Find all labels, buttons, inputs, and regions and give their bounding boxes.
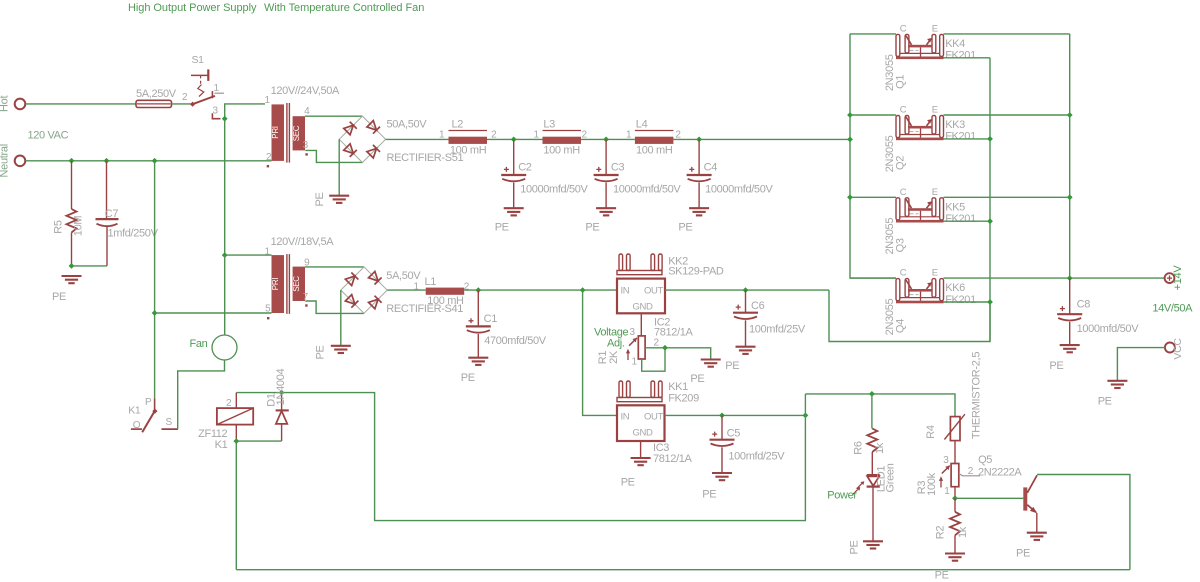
svg-text:2: 2 — [266, 152, 272, 163]
label PE C3 — [585, 222, 599, 234]
label PE R1 a — [725, 360, 739, 372]
svg-text:SEC: SEC — [292, 125, 301, 141]
rectifier B1 RECTIFIER-S51 — [339, 116, 463, 164]
wire Q2 collector — [850, 114, 896, 116]
ground PE C8 — [1060, 345, 1080, 352]
svg-text:R5: R5 — [53, 220, 65, 234]
wire IC2 OUT to base chain — [829, 290, 990, 341]
capacitor C3 10000mfd/50V — [594, 139, 682, 208]
wire R1 wiper to ground — [645, 348, 711, 360]
junction K1 branch — [152, 158, 158, 164]
svg-text:100 mH: 100 mH — [427, 295, 464, 307]
svg-text:1: 1 — [944, 486, 950, 497]
svg-text:L3: L3 — [543, 119, 555, 131]
svg-text:FK201: FK201 — [945, 213, 976, 225]
junction base Q2 — [987, 136, 993, 142]
svg-text:C8: C8 — [1077, 299, 1091, 311]
transistor Q2 2N3055 heatsink KK3 FK201 — [884, 105, 976, 173]
svg-text:OUT: OUT — [644, 412, 664, 423]
svg-text:C: C — [900, 187, 907, 198]
label PE C8 — [1049, 360, 1063, 372]
transformer T2 120V//18V,5A — [267, 236, 334, 319]
wire bridge B2 minus to ground — [340, 290, 342, 346]
wire L3 to L4 — [581, 138, 635, 140]
junction C1 — [475, 287, 481, 293]
wire base chain — [989, 58, 991, 342]
wire tap to fan — [224, 255, 226, 335]
ground PE C3 — [596, 208, 616, 215]
svg-text:KK3: KK3 — [945, 119, 965, 131]
T1 pin 1 label — [265, 95, 271, 106]
svg-text:PRI: PRI — [271, 278, 280, 291]
svg-text:1k: 1k — [957, 526, 969, 538]
wire T1 sec4 to bridge — [305, 115, 362, 117]
svg-text:E: E — [932, 23, 938, 34]
svg-text:K1: K1 — [215, 439, 228, 451]
svg-text:1000mfd/50V: 1000mfd/50V — [1077, 323, 1140, 335]
ground PE IC3 — [631, 458, 651, 465]
svg-text:1: 1 — [414, 282, 420, 293]
transformer T1 120V//24V,50A — [267, 85, 340, 167]
svg-text:E: E — [932, 187, 938, 198]
regulator IC2 7812/1A — [617, 279, 694, 339]
wire Q3 emitter — [944, 196, 1070, 198]
svg-text:FK209: FK209 — [668, 393, 699, 405]
svg-text:C5: C5 — [727, 428, 741, 440]
svg-text:PE: PE — [1016, 548, 1030, 560]
inductor L3 100 mH — [534, 119, 588, 157]
wire to IC3 IN — [583, 290, 617, 415]
wire Q4 base — [944, 301, 991, 303]
svg-text:PE: PE — [725, 360, 739, 372]
wire IC3 GND — [640, 441, 642, 458]
svg-text:2: 2 — [968, 466, 974, 477]
wire collector rail — [850, 34, 896, 278]
wire switched hot down — [224, 119, 226, 255]
fan M1 — [190, 335, 238, 360]
label PE LED — [848, 540, 860, 554]
wire bottom rail — [236, 569, 1130, 571]
svg-text:4700mfd/50V: 4700mfd/50V — [484, 335, 547, 347]
svg-text:14V/50A: 14V/50A — [1152, 303, 1193, 315]
wire tap to T2 pin1 — [225, 254, 272, 256]
svg-text:R4: R4 — [925, 425, 937, 439]
svg-text:2: 2 — [182, 92, 188, 103]
svg-text:1: 1 — [439, 130, 445, 141]
svg-text:PE: PE — [1049, 360, 1063, 372]
terminal VCC — [1165, 338, 1184, 360]
svg-text:Q5: Q5 — [978, 454, 992, 466]
resistor R2 1k — [935, 498, 970, 553]
svg-text:C: C — [900, 268, 907, 279]
junction base Q4 — [987, 299, 993, 305]
T2 pin 1 label — [265, 247, 271, 258]
ground PE R5 — [62, 276, 82, 283]
wire L4 to collector rail — [673, 138, 850, 140]
resistor R6 1k — [853, 394, 887, 455]
junction C5 — [719, 413, 725, 419]
svg-text:IN: IN — [621, 412, 630, 423]
junction erail Q2 — [1067, 112, 1073, 118]
svg-text:S1: S1 — [192, 54, 205, 66]
label PE IC3 — [621, 477, 635, 489]
regulator IC3 7812/1A — [617, 405, 693, 465]
label PE R5 — [52, 291, 66, 303]
svg-text:PE: PE — [935, 570, 949, 582]
wire IC3 OUT — [665, 414, 806, 416]
svg-text:3: 3 — [303, 140, 309, 151]
wire Q2 base — [944, 138, 991, 140]
svg-text:100 mH: 100 mH — [450, 145, 487, 157]
svg-text:PE: PE — [461, 372, 475, 384]
svg-text:2N2222A: 2N2222A — [978, 467, 1022, 479]
svg-text:KK5: KK5 — [945, 201, 965, 213]
svg-text:10000mfd/50V: 10000mfd/50V — [520, 184, 588, 196]
S1 pin 1 — [212, 83, 224, 98]
svg-text:OUT: OUT — [644, 286, 664, 297]
svg-text:100 mH: 100 mH — [543, 145, 580, 157]
junction 12V cross — [803, 413, 809, 419]
ground PE C1 — [468, 358, 488, 365]
svg-text:120 VAC: 120 VAC — [28, 130, 69, 142]
svg-text:5A,50V: 5A,50V — [386, 270, 421, 282]
junction IC3 feed — [580, 287, 586, 293]
svg-text:50A,50V: 50A,50V — [387, 119, 428, 131]
svg-text:Q1: Q1 — [894, 75, 906, 89]
junction C7 — [104, 158, 110, 164]
svg-text:5: 5 — [265, 304, 271, 315]
junction erail Q3 — [1067, 194, 1073, 200]
svg-text:1: 1 — [626, 130, 632, 141]
wire Q3 base — [944, 220, 991, 222]
wire R4 to R3 — [954, 441, 956, 464]
junction D1 — [279, 390, 285, 396]
ground PE C2 — [504, 208, 524, 215]
ground PE B2 — [331, 346, 351, 353]
junction K1 coil bottom — [233, 438, 239, 444]
wire LED to ground — [872, 487, 874, 542]
wire bridge B1 plus to L2 — [386, 138, 449, 140]
wire Q4 collector — [850, 277, 896, 279]
svg-text:120V//18V,5A: 120V//18V,5A — [271, 236, 335, 248]
resistor R5 10M — [53, 161, 85, 266]
svg-text:3: 3 — [630, 327, 636, 338]
diode D1 1N4004 — [266, 368, 289, 441]
S1 pin 2 label — [182, 92, 188, 103]
svg-text:10000mfd/50V: 10000mfd/50V — [705, 184, 773, 196]
svg-text:120V//24V,50A: 120V//24V,50A — [271, 85, 340, 97]
svg-text:VCC: VCC — [1172, 338, 1184, 360]
wire bottom rail to Q5 — [1037, 475, 1130, 570]
fuse F1 5A,250V — [136, 88, 177, 108]
svg-text:PE: PE — [52, 291, 66, 303]
svg-text:THERMISTOR-2,5: THERMISTOR-2,5 — [970, 352, 982, 439]
label Q5 2N2222A — [978, 454, 1022, 479]
capacitor C4 10000mfd/50V — [687, 139, 774, 208]
svg-text:2K: 2K — [608, 350, 620, 364]
svg-text:PE: PE — [678, 222, 692, 234]
label PE R1 b — [690, 373, 704, 385]
wire collector rail top — [850, 33, 896, 35]
terminal +14V — [1165, 265, 1184, 291]
wire bridge B1 minus to ground — [338, 139, 340, 195]
svg-text:PE: PE — [315, 345, 327, 359]
svg-text:Q3: Q3 — [894, 238, 906, 252]
capacitor C5 100mfd/25V — [710, 415, 786, 473]
ground PE R1 — [701, 360, 721, 367]
label PE C1 — [461, 372, 475, 384]
svg-text:PE: PE — [1098, 396, 1112, 408]
svg-text:Green: Green — [885, 463, 897, 492]
switch S1 — [190, 54, 215, 107]
wire hot to fuse — [26, 103, 137, 105]
potentiometer R1 2K Voltage Adj. — [594, 327, 660, 368]
svg-text:3: 3 — [213, 106, 219, 117]
svg-text:10000mfd/50V: 10000mfd/50V — [613, 184, 681, 196]
inductor L4 100 mH — [626, 119, 681, 157]
svg-text:KK4: KK4 — [945, 38, 965, 50]
svg-text:Hot: Hot — [0, 96, 11, 112]
ground PE C4 — [689, 208, 709, 215]
svg-text:100mfd/25V: 100mfd/25V — [749, 324, 806, 336]
wire L1 to IC2 IN — [464, 289, 617, 291]
R3 pin 3 label — [943, 455, 949, 466]
transistor Q3 2N3055 heatsink KK5 FK201 — [884, 187, 976, 255]
svg-text:R2: R2 — [935, 526, 947, 540]
label PE B1 — [314, 192, 326, 206]
wire emitter rail — [1069, 34, 1071, 278]
svg-text:Neutral: Neutral — [0, 144, 11, 177]
capacitor C7 .1mfd/250V — [96, 161, 159, 266]
svg-text:Adj.: Adj. — [607, 338, 625, 350]
wire neutral rail — [26, 160, 272, 162]
svg-text:FK201: FK201 — [945, 131, 976, 143]
ground PE C6 — [736, 347, 756, 354]
svg-text:KK6: KK6 — [945, 282, 965, 294]
svg-text:1: 1 — [632, 357, 638, 368]
junction rail Q3 — [847, 194, 853, 200]
label PE B2 — [315, 345, 327, 359]
svg-text:PE: PE — [314, 192, 326, 206]
wire base to Q5 — [955, 497, 1023, 499]
svg-text:PE: PE — [702, 489, 716, 501]
wire K1 coil to bottom rail — [235, 441, 237, 570]
label PE Q5 — [1016, 548, 1030, 560]
T2 pin 9 label — [304, 258, 310, 269]
wire 12V to R6 R4 — [805, 394, 955, 417]
junction rail L4 — [847, 137, 853, 143]
label PE VCC — [1098, 396, 1112, 408]
svg-text:FK201: FK201 — [945, 50, 976, 62]
terminal Neutral — [0, 144, 25, 177]
junction R5-C7 bottom — [69, 263, 75, 269]
junction base Q3 — [987, 218, 993, 224]
svg-text:FK201: FK201 — [945, 294, 976, 306]
wire S1 to T1 pin1 — [225, 104, 265, 119]
svg-text:2: 2 — [464, 282, 470, 293]
svg-text:1: 1 — [214, 83, 220, 94]
svg-text:SK129-PAD: SK129-PAD — [668, 265, 724, 277]
svg-text:PE: PE — [690, 373, 704, 385]
svg-text:High Output Power Supply: High Output Power Supply — [128, 2, 257, 14]
wire fan to K1 S — [178, 360, 225, 429]
svg-text:100 mH: 100 mH — [636, 145, 673, 157]
wire IC2 GND to R1 — [640, 313, 642, 336]
junction rail Q2 — [847, 112, 853, 118]
svg-text:C3: C3 — [611, 162, 625, 174]
wire Q4 emitter — [944, 277, 1070, 279]
capacitor C8 1000mfd/50V — [1057, 278, 1139, 345]
svg-text:PE: PE — [848, 540, 860, 554]
junction C8 — [1067, 275, 1073, 281]
svg-text:4: 4 — [304, 106, 310, 117]
svg-text:L2: L2 — [452, 119, 464, 131]
svg-text:E: E — [932, 105, 938, 116]
svg-text:5A,250V: 5A,250V — [136, 88, 177, 100]
heatsink KK1 FK209 — [617, 381, 699, 405]
svg-text:2: 2 — [226, 398, 232, 409]
svg-text:PRI: PRI — [271, 126, 280, 139]
junction R6 — [869, 391, 875, 397]
wire emitters to +14V terminal — [1070, 277, 1165, 279]
junction C6 — [743, 287, 749, 293]
junction C4 — [696, 137, 702, 143]
junction C3 — [603, 137, 609, 143]
T1 pin 3 label — [303, 140, 309, 151]
svg-text:1N4004: 1N4004 — [275, 368, 287, 405]
capacitor C6 100mfd/25V — [733, 290, 806, 347]
svg-text:Power: Power — [827, 490, 857, 502]
svg-text:10M: 10M — [73, 216, 85, 237]
wire neutral to K1 — [154, 161, 156, 399]
svg-text:7812/1A: 7812/1A — [653, 453, 693, 465]
svg-text:C: C — [900, 105, 907, 116]
ground PE R2 — [945, 554, 965, 561]
ground PE C5 — [712, 473, 732, 480]
svg-text:PE: PE — [621, 477, 635, 489]
relay contact K1 — [128, 397, 178, 432]
svg-text:C: C — [900, 23, 907, 34]
svg-text:S: S — [166, 417, 173, 428]
transistor Q1 2N3055 heatsink KK4 FK201 — [884, 23, 976, 91]
svg-text:1: 1 — [265, 95, 271, 106]
svg-text:100k: 100k — [926, 472, 938, 495]
wire VCC to ground — [1117, 348, 1164, 381]
title text — [128, 2, 424, 14]
svg-text:R6: R6 — [853, 441, 865, 455]
label 120 VAC — [28, 130, 69, 142]
svg-text:1: 1 — [265, 247, 271, 258]
junction C2 — [511, 137, 517, 143]
wire bridge B2 plus to L1 — [387, 289, 426, 291]
label PE C5 — [702, 489, 716, 501]
wire Q1 emitter — [944, 33, 1070, 35]
svg-text:Q4: Q4 — [894, 319, 906, 333]
inductor L1 100 mH — [414, 276, 470, 307]
svg-text:C6: C6 — [751, 300, 765, 312]
S1 pin 3 — [212, 106, 220, 119]
label PE C4 — [678, 222, 692, 234]
svg-text:C4: C4 — [704, 162, 718, 174]
wire L2 to L3 — [487, 138, 543, 140]
LED LED1 Green — [827, 463, 896, 501]
T2 pin 7 label — [303, 292, 309, 303]
svg-text:2: 2 — [654, 338, 660, 349]
potentiometer R3 100k — [916, 464, 980, 498]
wire 12V loop to relay — [236, 393, 805, 521]
wire D1 to K1 coil — [236, 440, 281, 442]
svg-text:.1mfd/250V: .1mfd/250V — [105, 228, 159, 240]
svg-text:E: E — [932, 268, 938, 279]
svg-text:With Temperature Controlled Fa: With Temperature Controlled Fan — [264, 2, 424, 14]
capacitor C2 10000mfd/50V — [501, 139, 588, 208]
label PE R2 — [935, 570, 949, 582]
terminal Hot — [0, 96, 25, 112]
transistor Q5 2N2222A — [1023, 475, 1037, 513]
wire Q2 emitter — [944, 114, 1070, 116]
svg-text:C2: C2 — [518, 162, 532, 174]
junction Q5 base — [952, 495, 958, 501]
svg-text:1k: 1k — [874, 442, 886, 454]
svg-text:C1: C1 — [484, 313, 498, 325]
ground PE VCC — [1107, 381, 1127, 388]
junction R5 — [69, 158, 75, 164]
heatsink KK2 SK129-PAD — [617, 254, 724, 277]
ground PE LED — [863, 541, 883, 548]
label PE C2 — [495, 222, 509, 234]
svg-text:PE: PE — [585, 222, 599, 234]
junction T2 pin1 tap — [222, 252, 228, 258]
wire tap to T2 pin5 — [155, 312, 272, 314]
capacitor C1 4700mfd/50V — [466, 290, 547, 358]
svg-text:SEC: SEC — [292, 276, 301, 292]
wire C7 bottom to R5 — [72, 265, 108, 267]
svg-text:100mfd/25V: 100mfd/25V — [728, 451, 785, 463]
wire T2 sec9 to bridge — [305, 266, 364, 268]
wire T1 sec3 to bridge — [305, 150, 362, 162]
label 14V/50A — [1152, 303, 1193, 315]
svg-text:GND: GND — [633, 428, 654, 439]
thermistor R4 THERMISTOR-2,5 — [925, 352, 982, 441]
wire fuse to S1 — [172, 103, 193, 105]
svg-text:K1: K1 — [128, 405, 141, 417]
svg-text:+14V: +14V — [1172, 265, 1184, 291]
wire R3 to junction — [954, 487, 956, 499]
wire IC2 OUT — [665, 289, 829, 291]
svg-text:PE: PE — [495, 222, 509, 234]
wire Q5 emitter to ground — [1036, 513, 1038, 533]
ground PE Q5 — [1027, 533, 1047, 540]
svg-text:L1: L1 — [425, 276, 437, 288]
junction S1-3 — [222, 116, 228, 122]
svg-text:IN: IN — [621, 286, 630, 297]
wire R6 to LED — [871, 452, 873, 475]
svg-text:7812/1A: 7812/1A — [654, 327, 694, 339]
wire Q1 base — [944, 57, 991, 59]
svg-text:L4: L4 — [636, 119, 648, 131]
wire T2 sec7 to bridge — [305, 301, 364, 313]
svg-text:P: P — [145, 397, 152, 408]
svg-text:1: 1 — [534, 130, 540, 141]
svg-text:C7: C7 — [105, 208, 119, 220]
wire R1 bottom to wiper — [642, 348, 665, 371]
junction R1 wiper — [662, 345, 668, 351]
wire 12V up — [804, 394, 806, 416]
svg-text:KK1: KK1 — [668, 381, 688, 393]
junction T2 pin5 tap — [152, 310, 158, 316]
T1 pin 4 label — [304, 106, 310, 117]
ground PE B1 — [329, 196, 349, 203]
